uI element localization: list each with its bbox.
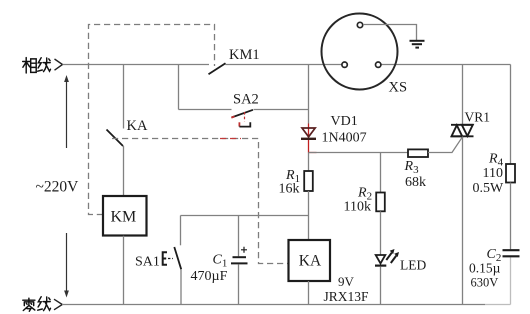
pushbutton SA2 plunger bracket xyxy=(238,122,240,126)
wire: SA2 branch from top rail xyxy=(178,65,180,110)
wire: top rail socket right pin to right corner xyxy=(381,64,511,66)
svg-text:68k: 68k xyxy=(405,175,426,190)
triac VR1 symbol xyxy=(451,125,474,137)
diode VD1 red lead xyxy=(309,124,317,153)
wire: C1 upper lead xyxy=(238,216,240,257)
red dashed segment on KA link under SA2 xyxy=(220,138,241,140)
arrow up (phase side of ~220V) xyxy=(64,75,69,148)
wire: SA1/C1 tee row xyxy=(181,215,309,217)
wire: R3 to triac gate xyxy=(428,137,463,153)
pushbutton SA2 blade xyxy=(232,110,254,118)
svg-text:470µF: 470µF xyxy=(191,269,228,284)
wire: SA1 upper lead xyxy=(180,216,182,246)
wire: C1 to bottom rail xyxy=(238,264,240,304)
wire: phase line top rail left of KM1 xyxy=(63,64,210,66)
socket XS left pin xyxy=(342,62,347,67)
node 零线 input chevron xyxy=(54,299,62,310)
svg-text:1N4007: 1N4007 xyxy=(322,131,367,146)
svg-text:VD1: VD1 xyxy=(331,114,358,129)
svg-text:KA: KA xyxy=(127,118,148,134)
node 相线 input chevron xyxy=(55,59,63,70)
wire: triac to bottom rail xyxy=(462,137,464,305)
node 零线 (neutral label, custom glyph strokes) xyxy=(23,297,51,312)
svg-text:KA: KA xyxy=(299,253,322,270)
svg-text:16k: 16k xyxy=(279,182,300,197)
switch SA1 actuator (E) xyxy=(163,252,167,264)
pushbutton SA2 red dashed plunger link xyxy=(244,112,246,122)
wire: R2/LED branch from gate row xyxy=(380,153,382,193)
arrow down (neutral side of ~220V) xyxy=(64,233,69,298)
resistor R2 body xyxy=(376,193,385,212)
capacitor C1 plus sign xyxy=(241,247,247,253)
wire: SA2 row right segment xyxy=(254,109,309,111)
wire: SA2 row left segment xyxy=(179,109,232,111)
wire: bottom rail faded right end xyxy=(485,304,511,306)
wire: neutral bottom rail xyxy=(62,304,485,306)
resistor R3 body xyxy=(408,149,428,157)
wire: earth pin to ground xyxy=(363,25,417,41)
switch SA1 actuator dashed link xyxy=(168,258,173,260)
switch SA1 blade xyxy=(174,247,181,269)
node 相线 (phase line label, custom glyph strokes) xyxy=(23,58,51,73)
wire: KA contact branch from top rail xyxy=(123,65,125,129)
resistor R4 body xyxy=(506,164,515,183)
LED cathode bar xyxy=(375,265,386,267)
relay coil KA box xyxy=(289,240,331,281)
wire: top rail KM1 to socket left pin xyxy=(226,64,342,66)
svg-text:0.5W: 0.5W xyxy=(473,181,505,196)
wire: R4 branch from top rail corner xyxy=(510,65,512,165)
socket XS circle xyxy=(322,14,398,90)
svg-text:KM1: KM1 xyxy=(229,47,260,63)
wire: gate row from VD1 junction to R3 xyxy=(309,152,409,154)
wire: R2 to LED xyxy=(380,211,382,254)
dashed mechanical-link box from KM coil to KM1 xyxy=(89,25,215,215)
svg-text:~220V: ~220V xyxy=(36,179,80,196)
diode VD1 triangle xyxy=(302,128,315,137)
wire: KA contact to KM coil xyxy=(123,146,125,196)
wire: R1 from VD1 junction down xyxy=(308,153,310,172)
capacitor C1 plates xyxy=(233,256,247,258)
svg-text:110: 110 xyxy=(483,166,503,181)
ground symbol xyxy=(410,41,425,48)
svg-text:XS: XS xyxy=(389,80,408,96)
svg-text:JRX13F: JRX13F xyxy=(324,289,370,304)
diode VD1 cathode bar xyxy=(301,138,316,140)
svg-text:0.15µ: 0.15µ xyxy=(469,261,501,276)
svg-text:SA1: SA1 xyxy=(135,255,160,270)
svg-text:SA2: SA2 xyxy=(233,92,259,108)
svg-text:KM: KM xyxy=(111,209,137,226)
relay contact KA blade xyxy=(107,130,124,147)
svg-text:LED: LED xyxy=(400,258,426,273)
LED triangle xyxy=(376,255,386,263)
svg-text:630V: 630V xyxy=(471,276,499,290)
wire: KA coil to bottom rail xyxy=(308,281,310,305)
wire: triac branch from top rail xyxy=(462,65,464,125)
svg-text:VR1: VR1 xyxy=(465,110,491,125)
capacitor C2 plates xyxy=(503,249,520,251)
contactor contact KM1 blade xyxy=(209,63,226,74)
svg-text:9V: 9V xyxy=(338,274,355,289)
socket XS right pin xyxy=(376,62,381,67)
wire: LED to bottom rail xyxy=(380,267,382,305)
pushbutton SA2 blade red tip xyxy=(231,116,234,117)
wire: KM coil to bottom rail xyxy=(123,236,125,305)
wire: R4 to C2 xyxy=(510,183,512,250)
wire: SA1 to bottom rail xyxy=(180,269,182,304)
wire: VD1 branch from top rail xyxy=(308,65,310,124)
wire: R1 to KA coil xyxy=(308,191,310,240)
resistor R1 body xyxy=(304,171,313,191)
dashed link KA contact to KA coil xyxy=(112,139,288,264)
svg-text:110k: 110k xyxy=(344,200,371,215)
LED light arrows xyxy=(386,249,399,263)
relay coil KM box xyxy=(103,196,147,236)
wire: C2 to bottom rail (faded by watermark) xyxy=(510,258,512,305)
socket XS earth pin xyxy=(357,22,362,27)
